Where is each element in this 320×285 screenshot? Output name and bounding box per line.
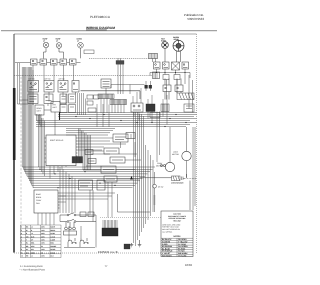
wires bottom cluster [60,190,96,248]
svg-text:10/02: 10/02 [185,263,192,267]
svg-text:BAKE: BAKE [36,193,42,196]
control board CB1 [35,105,44,115]
pilot lamp block S4 [60,59,67,65]
wire: main run to right [81,91,141,99]
svg-text:PLEF398CCA: PLEF398CCA [90,15,111,19]
pilot lamp block S5 [70,59,77,65]
surface element E1 (double circle) [173,36,184,51]
wire lock motor down [186,161,188,178]
wires between relay blocks and strip [78,93,86,115]
vertical harness V2 [134,112,154,246]
console boundary (dashed) upper [89,54,158,59]
mid box M3 [101,166,116,173]
svg-text:NOTES: NOTES [174,235,182,238]
svg-text:WIRING DIAGRAM: WIRING DIAGRAM [86,26,115,30]
relay RB3 (hatched) [161,104,169,112]
chassis arrow A1 [130,176,133,180]
bottom switch SW3 [80,212,94,217]
mid box M2a [104,148,119,154]
terminal strip TB2 [110,100,127,105]
mid box M1b [126,133,135,139]
junction dots right cluster [156,72,186,73]
door plunger switch box [97,180,105,190]
pilot lamp block S2 [40,59,47,65]
svg-text:BROIL: BROIL [36,196,41,199]
door lock assembly box [79,180,93,190]
wire run above terminal strip [111,85,145,95]
caution text block [168,213,187,223]
label: Publication No. [184,13,205,21]
wires left column [18,77,49,106]
connector shell CN8 (dark) [124,244,130,249]
connector CN4b [87,101,93,105]
capacitor C1 (dark pair) [145,81,152,91]
door lock switch DS1 [153,184,164,188]
junction dots on B1 [59,112,186,127]
wires door switch [154,172,156,212]
control board CB2 [51,102,60,113]
vertical wires right pair [170,127,195,210]
connector CN4 [87,95,93,99]
infinite switch IS1 [28,77,39,92]
connector block P3 (dark) with pins [102,220,118,236]
relay board RB1 [131,103,143,112]
lock motor M5 [172,151,191,161]
terminal strip TB1 upper [98,94,114,99]
wire from L1 down [44,48,47,59]
connector CN6 on harness [150,113,160,118]
main harness bundle B1 [36,113,197,127]
wires EOC bottom drops [50,166,66,179]
indicator light L1 (left surface) [43,38,49,48]
svg-text:ESEC 30 PLUS: ESEC 30 PLUS [50,139,64,142]
connector CN5 [88,108,96,112]
diagram frame (border) [14,34,197,253]
wires from E1 down [177,50,181,62]
wires from convection board right [59,193,115,199]
infinite switch IS2 [44,77,54,92]
svg-text:RW RD/WH: RW RD/WH [162,254,172,257]
label: footnotes [20,265,46,271]
wires mid cluster [116,134,141,179]
wires right cluster down [153,59,193,113]
wire color legend table [20,225,61,258]
svg-text:CONV: CONV [36,199,42,202]
wires left of EOC [39,115,45,176]
oven light switch block [44,94,53,104]
connector CN5b [94,95,100,99]
wires from door light switch down [108,182,112,218]
svg-text:INF SW: INF SW [59,77,65,80]
wires from relay K3 down [118,58,123,94]
left harness verticals V1 (turn into lower bundle B2) [18,63,156,188]
relay KR1 [85,150,93,155]
wires from relays to conv motor [157,112,160,163]
wire crossings through B1 [97,104,109,127]
svg-text:INF SW: INF SW [45,77,51,80]
relay block RL2 [69,94,76,103]
wire stubs left ends of B1 [37,114,42,127]
oven selector switch [101,79,111,88]
heating element loop EL2 [80,238,88,247]
svg-text:* = Non-Illustrated Parts: * = Non-Illustrated Parts [20,268,46,271]
wires relay boxes vertical [133,88,167,125]
notes / caution box [161,211,193,257]
heating element loop EL1 [68,238,76,247]
wires from terminal strips [101,99,124,114]
infinite switch IS3 [58,77,68,92]
surface switch SS2 [163,62,170,69]
wires below CV1 [38,196,66,225]
broil element EB (hatched) [177,93,194,100]
junction dots on B2 [39,169,115,189]
bottom switch SW2 [60,219,96,222]
indicator light L2 [56,38,62,49]
wire drops from switch row [33,65,74,81]
wire from L2 down [59,48,64,58]
wire color code table [161,238,193,256]
relay K3 small [116,61,124,65]
element block E2 [172,62,180,70]
connector box near L3 [84,50,94,54]
convection motor M6 [156,162,175,172]
connector CN3 [174,75,180,80]
relay block RL4 [69,105,76,113]
switch block SB1 [163,79,171,100]
keyboard connector (dark) on EOC [72,157,83,164]
infinite switch IS4 [72,81,79,93]
wire to oven sensor [140,174,190,210]
relay block RL1 [60,94,67,103]
svg-text:THIS UNIT: THIS UNIT [173,220,182,223]
panel boundary (dash-dot) [20,77,22,253]
svg-text:5995379533: 5995379533 [187,17,204,21]
wire bus right cluster [150,73,190,79]
wire: thick drop from CB2 [59,112,61,120]
svg-text:ALL WIRING.: ALL WIRING. [162,230,173,233]
wires from EOC to mid components [77,138,126,170]
svg-text:YR YL/RD: YR YL/RD [178,254,187,257]
ground G1 [130,243,134,247]
relay KR2 [88,159,96,164]
mid box M4 (door light switch) [104,176,117,182]
wire from L3 down [80,48,82,58]
mid box M2b [110,157,125,163]
mid relay box M1a [113,134,128,142]
surface switch SS3 [182,62,189,69]
relay block RL3 [60,105,67,113]
wire from L4 down [164,48,166,62]
relay RB2 (dark) [146,104,155,112]
connector CN7 on harness [184,104,194,112]
wires from control boards [44,94,66,135]
terminal ticks on door wire [154,196,156,204]
ground G2 [138,240,142,247]
wire run above notes box [118,194,151,212]
harness bundle B1 lower part [66,129,115,136]
surface switch SS1 [154,62,161,69]
bottom switch SW1 [60,213,96,216]
switch block SB2 [175,79,183,94]
electronic oven control EOC [45,135,78,166]
oven boundary (dashed) [100,217,161,219]
svg-text:F325231 rev. B: F325231 rev. B [98,250,118,254]
clock timer block [28,94,38,104]
wire drops from lower bundle to door boxes [60,167,75,213]
connector CN2 [163,75,169,80]
label: WIRING DIAGRAM title [86,26,115,30]
console boundary (dashed) lower [14,72,160,79]
notes paragraph [162,223,181,233]
wire drops from infinite switches [33,88,106,105]
indicator light L4 (right) [161,38,168,49]
pilot lamp block S1 [31,59,38,65]
indicator light L3 [77,38,84,49]
svg-text:MOTOR: MOTOR [172,153,179,156]
pilot lamp block S3 [51,59,58,65]
convection board CV1 [34,190,59,213]
svg-text:OVEN SENSOR: OVEN SENSOR [171,182,184,185]
plug P1 [64,222,77,235]
wires right of EOC (drop from harness) [79,129,91,171]
wire bus through switch row [15,62,81,64]
oven sensor RTD [172,176,197,181]
